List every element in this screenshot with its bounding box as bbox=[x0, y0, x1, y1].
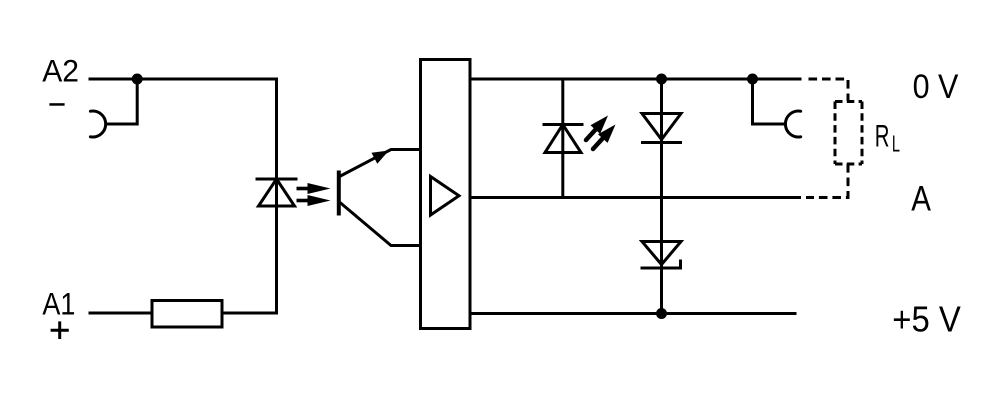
svg-text:A1: A1 bbox=[42, 286, 75, 322]
svg-text:A2: A2 bbox=[42, 53, 79, 89]
svg-text:L: L bbox=[892, 131, 900, 157]
svg-text:0 V: 0 V bbox=[913, 68, 959, 106]
svg-text:R: R bbox=[875, 118, 890, 154]
svg-text:+5 V: +5 V bbox=[892, 299, 961, 340]
svg-text:A: A bbox=[911, 180, 931, 219]
